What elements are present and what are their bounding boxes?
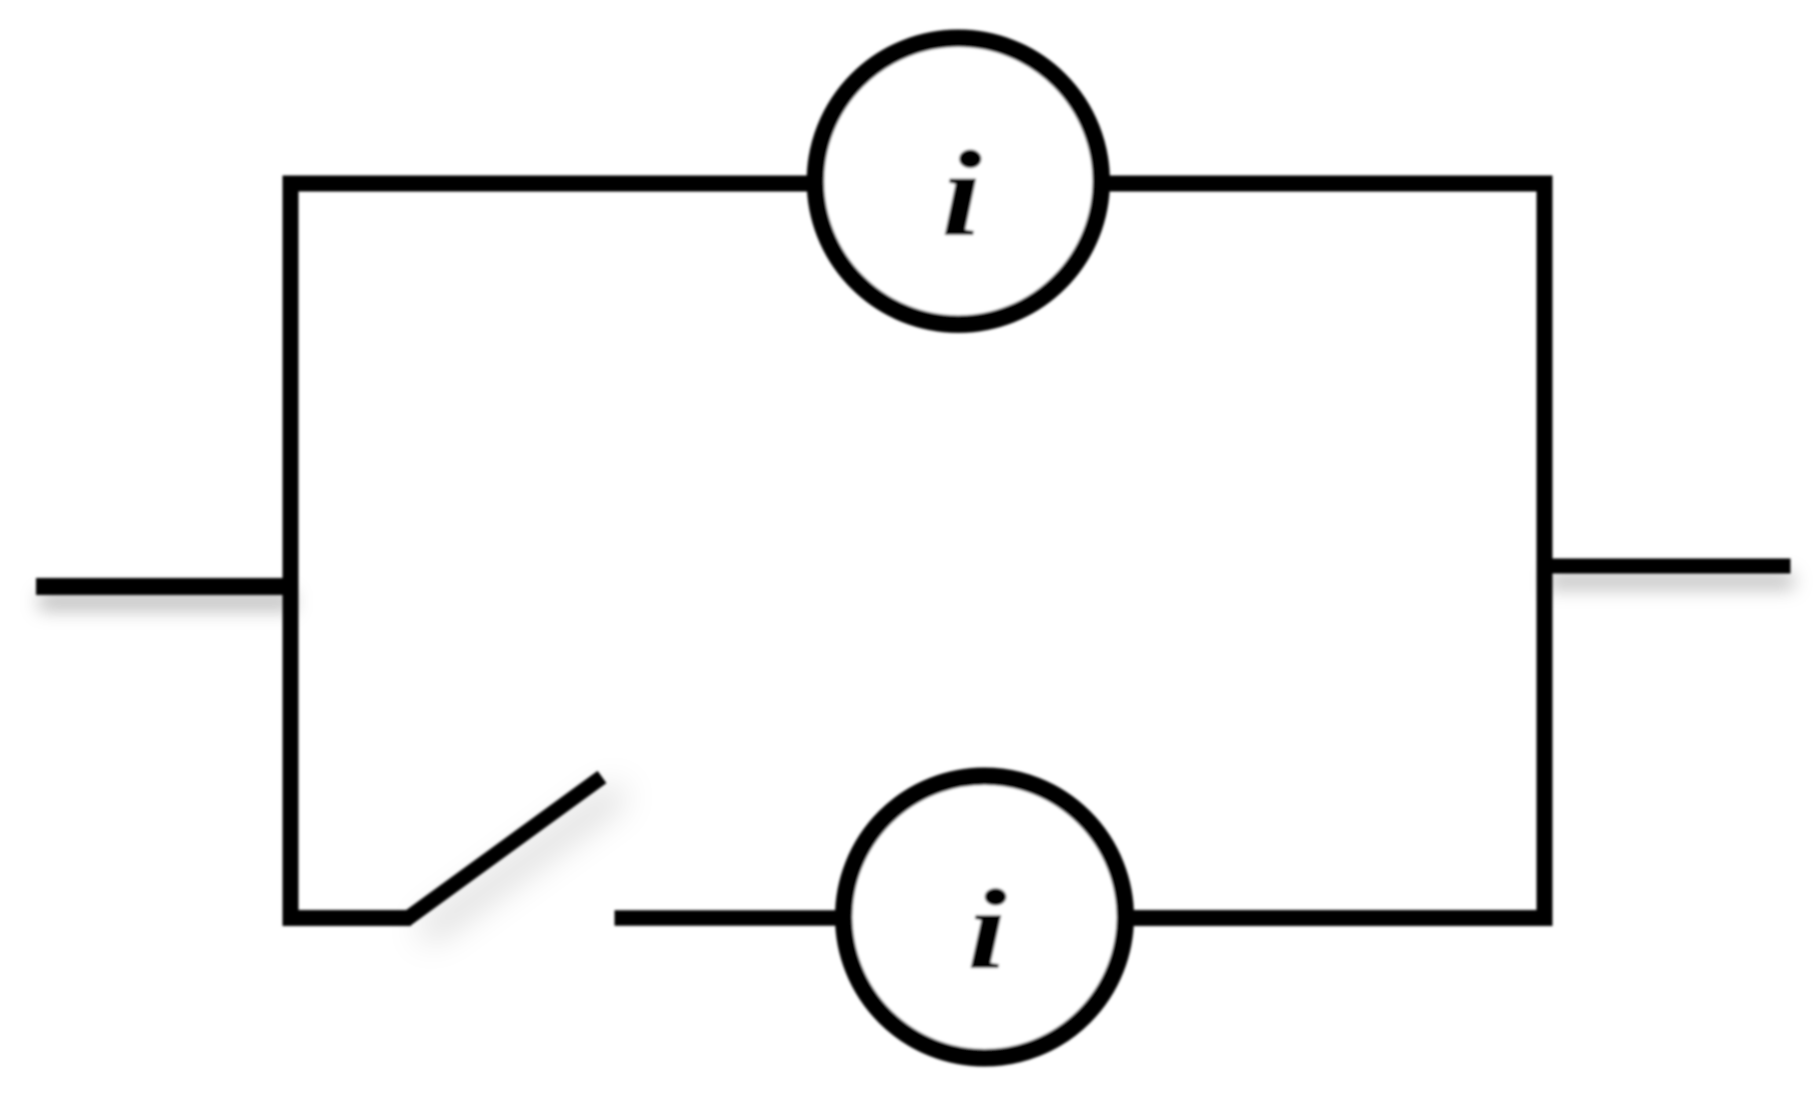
wire: left vertical + top-left segment [291, 184, 809, 919]
svg-text:i: i [967, 866, 1007, 993]
svg-text:i: i [941, 126, 982, 262]
wire: switch fixed contact stub [615, 910, 838, 926]
ammeter A1 (top current meter) [815, 38, 1101, 324]
ammeter A2 (bottom current meter) [844, 776, 1126, 1058]
wire: top-right segment + right vertical + bottom-right segment [1109, 184, 1545, 919]
switch S1 blade [406, 777, 602, 920]
left terminal lead [36, 578, 291, 595]
right terminal lead [1545, 559, 1791, 574]
